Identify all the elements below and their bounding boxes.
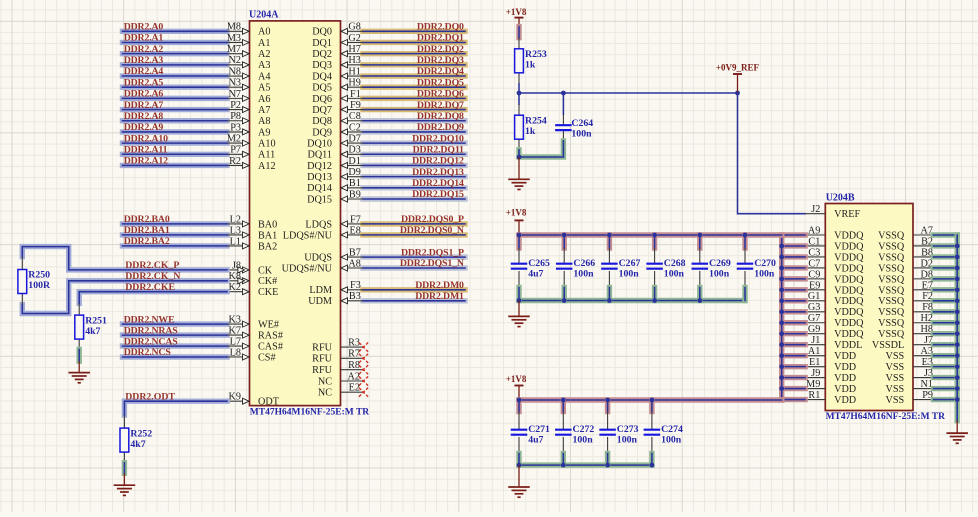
capacitor C267 [601, 248, 618, 288]
svg-text:100R: 100R [28, 280, 51, 291]
svg-text:G7: G7 [808, 313, 820, 324]
resistor R251 [75, 303, 84, 349]
svg-text:DDR2.CK_P: DDR2.CK_P [125, 260, 179, 271]
svg-text:DQ11: DQ11 [307, 150, 332, 161]
wire net DDR2.A8 (left) [123, 118, 228, 123]
junction node G9 [779, 331, 784, 336]
pin A8 (P8) of U204A [227, 111, 270, 127]
wire GND stub from pin A7 [933, 232, 957, 237]
svg-text:DDR2.A3: DDR2.A3 [124, 55, 164, 66]
svg-text:K2: K2 [229, 282, 241, 293]
svg-text:DDR2.A12: DDR2.A12 [124, 156, 168, 167]
pin BA1 (L3) of U204A [227, 225, 277, 241]
label R252 4k7 [130, 428, 152, 450]
wire +1V8 stub to C267 [607, 235, 612, 248]
svg-text:DDR2.DQ15: DDR2.DQ15 [412, 189, 464, 200]
pin CK (J8) of U204A [227, 260, 273, 276]
resistor R253 [515, 38, 524, 93]
svg-text:LDQS: LDQS [305, 219, 332, 230]
svg-text:DDR2.A11: DDR2.A11 [124, 144, 168, 155]
svg-text:VDDQ: VDDQ [834, 263, 864, 274]
svg-text:N3: N3 [229, 78, 241, 89]
svg-text:DDR2.DQ13: DDR2.DQ13 [412, 167, 464, 178]
wire net DDR2.DQ2 (right) [363, 51, 465, 56]
power port +1V8 (top) [506, 7, 527, 26]
pin DQ15 (B9) of U204A [307, 189, 363, 205]
net label DDR2.CK_N [125, 271, 180, 282]
junction node C265 bottom [517, 298, 522, 303]
pin A5 (N3) of U204A [227, 78, 270, 94]
svg-text:K3: K3 [229, 315, 241, 326]
wire net DDR2.DQ4 (right) [363, 73, 465, 78]
junction node G1 [779, 298, 784, 303]
svg-text:VSSQ: VSSQ [878, 307, 905, 318]
wire net DDR2.DQS1_N (right) [363, 265, 465, 270]
ground right of U204B [946, 421, 968, 444]
svg-text:J2: J2 [811, 204, 820, 215]
net label DDR2.BA0 [124, 214, 170, 225]
wire +1V8 stub to pin G9 [782, 331, 805, 336]
junction node G7 [779, 320, 784, 325]
svg-text:DQ14: DQ14 [307, 183, 332, 194]
wire +1V8 stub to C273 [605, 400, 610, 412]
wire +1V8 stub to pin R1 [782, 397, 805, 402]
svg-text:E1: E1 [809, 357, 820, 368]
net label DDR2.A10 [124, 133, 168, 144]
junction node C268 top [652, 233, 657, 238]
svg-text:DDR2.A4: DDR2.A4 [124, 66, 164, 77]
svg-text:CKE: CKE [258, 287, 278, 298]
wire net DDR2.A1 (left) [123, 40, 228, 45]
wire +1V8 stub to pin G7 [782, 320, 805, 325]
wire net DDR2.DQ15 (right) [363, 196, 465, 201]
svg-text:MT47H64M16NF-25E:M TR: MT47H64M16NF-25E:M TR [826, 412, 945, 422]
wire +0V9_REF to VREF pin [738, 93, 806, 214]
pin UDQS#/NU (A8) of U204A [282, 258, 363, 274]
svg-text:VSS: VSS [885, 384, 904, 395]
svg-text:1k: 1k [525, 126, 536, 137]
svg-text:DQ7: DQ7 [312, 105, 332, 116]
wire net DDR2.DQS1_P (right) [363, 254, 465, 259]
junction node C267 bottom [607, 298, 612, 303]
svg-text:VDDQ: VDDQ [834, 318, 864, 329]
svg-text:M9: M9 [806, 379, 820, 390]
ground under cap group 2 [508, 465, 530, 497]
svg-text:DQ4: DQ4 [312, 71, 332, 82]
svg-text:VDD: VDD [834, 395, 856, 406]
svg-text:A12: A12 [258, 161, 276, 172]
wire +1V8 stub to C268 [652, 235, 657, 248]
pin CAS# (L7) of U204A [227, 337, 283, 353]
junction node A9 rail tee [779, 233, 784, 238]
pin VDD (E1) of U204B [805, 357, 856, 373]
svg-text:DDR2.NWE: DDR2.NWE [124, 314, 175, 325]
wire +1V8 stub to pin C9 [782, 276, 805, 281]
svg-text:DQ6: DQ6 [312, 94, 332, 105]
svg-text:L1: L1 [230, 236, 241, 247]
pin DQ8 (C8) of U204A [312, 111, 363, 127]
pin VDDQ (G7) of U204B [805, 313, 864, 329]
wire GND stub from pin D8 [933, 276, 957, 281]
net label DDR2.DQ6 [417, 89, 464, 100]
svg-text:DQ2: DQ2 [312, 49, 332, 60]
svg-text:M2: M2 [227, 134, 241, 145]
junction node N1 [955, 386, 960, 391]
svg-text:J9: J9 [811, 368, 820, 379]
pin VDDQ (G9) of U204B [805, 324, 864, 340]
svg-text:G1: G1 [808, 291, 820, 302]
svg-text:H3: H3 [348, 55, 360, 66]
wire net DDR2.DQ6 (right) [363, 96, 465, 101]
pin LDM (F3) of U204A [309, 280, 363, 296]
wire GND stub from pin F8 [933, 309, 957, 314]
svg-text:R1: R1 [808, 390, 820, 401]
junction node E1 [779, 364, 784, 369]
wire net DDR2.DQ0 (right) [363, 29, 465, 34]
svg-text:K9: K9 [229, 392, 241, 403]
wire net DDR2.A4 (left) [123, 73, 228, 78]
pin A4 (N8) of U204A [227, 66, 270, 82]
wire GND stub from pin H2 [933, 320, 957, 325]
junction node C1 [779, 244, 784, 249]
wire net DDR2.A11 (left) [123, 152, 228, 157]
junction node C265 top [517, 233, 522, 238]
svg-text:VDD: VDD [834, 351, 856, 362]
svg-text:RFU: RFU [312, 343, 332, 354]
svg-text:WE#: WE# [258, 320, 279, 331]
svg-text:100n: 100n [664, 269, 685, 280]
svg-text:100n: 100n [573, 435, 594, 446]
svg-text:DDR2.DQ8: DDR2.DQ8 [417, 111, 464, 122]
wire net DDR2.DQ11 (right) [363, 152, 465, 157]
pin RFU (R7) of U204A with no-ERC cross [312, 349, 368, 365]
svg-text:DQ0: DQ0 [312, 27, 332, 38]
net label DDR2.A11 [124, 144, 168, 155]
pin NC (E2) of U204A with no-ERC cross [318, 383, 368, 399]
junction node E7 [955, 287, 960, 292]
capacitor C269 [692, 248, 709, 288]
svg-text:LDQS#/NU: LDQS#/NU [283, 230, 333, 241]
wire net DDR2.NCS (left) [123, 354, 228, 359]
wire C267 to GND rail [607, 288, 612, 301]
svg-text:DDR2.BA1: DDR2.BA1 [124, 225, 170, 236]
wire net DDR2.A5 (left) [123, 84, 228, 89]
wire net DDR2.DQS0_P (right) [363, 221, 465, 226]
svg-text:D3: D3 [348, 145, 360, 156]
wire R252 to ground [122, 463, 127, 474]
pin A9 (P3) of U204A [227, 122, 270, 138]
svg-text:DDR2.BA2: DDR2.BA2 [124, 236, 170, 247]
capacitor C266 [556, 248, 573, 288]
svg-text:DQ5: DQ5 [312, 83, 332, 94]
wire +1V8 rail (cap group 1) [519, 232, 782, 237]
net label DDR2.DQ0 [417, 22, 464, 33]
wire net DDR2.BA1 (left) [123, 232, 228, 237]
svg-text:N7: N7 [229, 89, 241, 100]
svg-text:DDR2.DQ2: DDR2.DQ2 [417, 44, 464, 55]
svg-text:100n: 100n [617, 435, 638, 446]
wire +1V8 stub to pin C7 [782, 265, 805, 270]
net label DDR2.CK_P [125, 260, 179, 271]
svg-text:N8: N8 [229, 66, 241, 77]
pin VDDQ (C3) of U204B [805, 247, 864, 263]
pin LDQS#/NU (E8) of U204A [283, 225, 363, 241]
svg-text:100n: 100n [573, 269, 594, 280]
svg-text:A2: A2 [258, 49, 270, 60]
svg-text:DDR2.A10: DDR2.A10 [124, 133, 168, 144]
svg-text:RAS#: RAS# [258, 331, 283, 342]
junction node C272 top [561, 398, 566, 403]
pin DQ10 (D7) of U204A [307, 134, 363, 150]
wire net DDR2.CK_N [22, 281, 227, 314]
net label DDR2.DQ15 [412, 189, 464, 200]
svg-text:VSS: VSS [885, 351, 904, 362]
pin DQ14 (B1) of U204A [307, 178, 363, 194]
svg-text:VSSQ: VSSQ [878, 230, 905, 241]
pin DQ6 (F1) of U204A [312, 89, 363, 105]
svg-text:VDDQ: VDDQ [834, 296, 864, 307]
junction node A1 [779, 353, 784, 358]
pin VSSQ (H2) of U204B [878, 313, 933, 329]
svg-text:G8: G8 [348, 22, 360, 33]
wire C271 to GND rail [516, 454, 521, 466]
wire +1V8 stub to C269 [697, 235, 702, 248]
label C267 100n [619, 258, 641, 280]
label R253 1k [525, 49, 547, 71]
junction node F2 [955, 298, 960, 303]
junction node C273 bottom [605, 463, 610, 468]
ground under R251 [68, 361, 90, 383]
wire C268 to GND rail [652, 288, 657, 301]
junction node C269 top [697, 233, 702, 238]
net label DDR2.BA1 [124, 225, 170, 236]
svg-text:P8: P8 [230, 111, 241, 122]
wire GND stub from pin J3 [933, 375, 957, 380]
svg-text:VSSQ: VSSQ [878, 329, 905, 340]
wire net DDR2.CK_P [22, 247, 227, 270]
net label DDR2.CKE [125, 282, 175, 293]
svg-text:NC: NC [318, 376, 332, 387]
svg-text:P2: P2 [230, 100, 241, 111]
net label DDR2.ODT [125, 391, 175, 402]
svg-text:4u7: 4u7 [528, 435, 543, 446]
junction node ground tap [517, 155, 522, 160]
net label DDR2.A1 [124, 33, 164, 44]
label C264 100n [571, 118, 593, 140]
pin BA2 (L1) of U204A [227, 236, 277, 252]
wire net DDR2.A9 (left) [123, 129, 228, 134]
svg-text:E2: E2 [349, 383, 360, 394]
svg-text:J1: J1 [811, 335, 820, 346]
net label DDR2.DM0 [415, 280, 464, 291]
junction node J9 [779, 375, 784, 380]
svg-text:R2: R2 [229, 156, 241, 167]
ground under R254 [508, 157, 530, 190]
svg-text:G3: G3 [808, 302, 820, 313]
wire R254/C264 to ground [519, 141, 563, 157]
net label DDR2.DQ10 [412, 133, 464, 144]
pin VSSQ (E7) of U204B [878, 280, 933, 296]
svg-text:VSSQ: VSSQ [878, 263, 905, 274]
pin DQ3 (H3) of U204A [312, 55, 363, 71]
svg-text:VDDQ: VDDQ [834, 230, 864, 241]
pin DQ5 (H9) of U204A [312, 78, 363, 94]
svg-text:B7: B7 [349, 248, 361, 259]
svg-text:C274: C274 [661, 424, 683, 435]
pin CK# (K8) of U204A [227, 271, 277, 287]
net label DDR2.NCS [124, 347, 172, 358]
junction node C268 bottom [652, 298, 657, 303]
pin VDDL (J1) of U204B [805, 335, 862, 351]
svg-text:C266: C266 [573, 258, 595, 269]
svg-text:DDR2.DM0: DDR2.DM0 [415, 280, 464, 291]
pin VDDQ (E9) of U204B [805, 280, 864, 296]
wire C266 to GND rail [562, 288, 567, 301]
wire net DDR2.NRAS (left) [123, 332, 228, 337]
svg-text:DDR2.DQ9: DDR2.DQ9 [417, 122, 464, 133]
wire +1V8 stub to pin C3 [782, 254, 805, 259]
svg-text:A9: A9 [808, 225, 820, 236]
wire net DDR2.DQ12 (right) [363, 163, 465, 168]
wire net DDR2.NWE (left) [123, 321, 228, 326]
wire net +0V9_REF horizontal [519, 92, 738, 94]
junction node D2 [955, 266, 960, 271]
pin DQ4 (H1) of U204A [312, 66, 363, 82]
svg-text:C272: C272 [573, 424, 595, 435]
pin A11 (P7) of U204A [227, 145, 275, 161]
wire +1V8 stub to pin E1 [782, 364, 805, 369]
pin DQ11 (D3) of U204A [307, 145, 363, 161]
svg-text:C269: C269 [709, 258, 731, 269]
svg-text:F7: F7 [350, 214, 361, 225]
svg-text:P7: P7 [230, 145, 241, 156]
svg-text:B9: B9 [349, 189, 361, 200]
junction node C271 top [517, 398, 522, 403]
junction node G3 [779, 309, 784, 314]
net label DDR2.DQ12 [412, 156, 464, 167]
svg-text:VREF: VREF [834, 209, 860, 220]
ground under R252 [114, 473, 135, 495]
wire +1V8 stub to C272 [561, 400, 566, 412]
junction node J7 [955, 342, 960, 347]
svg-text:DDR2.DM1: DDR2.DM1 [415, 291, 464, 302]
svg-text:DQ8: DQ8 [312, 116, 332, 127]
svg-text:A8: A8 [348, 258, 360, 269]
wire net ODT (left) [0, 0, 1, 1]
junction node H2 [955, 320, 960, 325]
label C269 100n [709, 258, 731, 280]
svg-text:N2: N2 [229, 55, 241, 66]
wire GND stub from pin A3 [933, 353, 957, 358]
svg-text:A3: A3 [258, 60, 270, 71]
pin DQ0 (G8) of U204A [312, 22, 363, 38]
net label DDR2.DQ14 [412, 178, 464, 189]
svg-text:C273: C273 [617, 424, 639, 435]
svg-text:A7: A7 [258, 105, 270, 116]
wire GND stub from pin P9 [933, 397, 957, 402]
pin WE# (K3) of U204A [227, 315, 279, 331]
svg-text:VDDQ: VDDQ [834, 252, 864, 263]
pin VDD (M9) of U204B [805, 379, 856, 395]
junction node R1 rail tee [779, 398, 784, 403]
wire net CKE (left) [0, 0, 1, 1]
svg-text:A8: A8 [258, 116, 270, 127]
wire net DDR2.A6 (left) [123, 96, 228, 101]
svg-text:DDR2.NRAS: DDR2.NRAS [124, 325, 179, 336]
wire net DDR2.ODT [124, 401, 227, 415]
svg-text:DDR2.A6: DDR2.A6 [124, 89, 164, 100]
svg-text:1k: 1k [525, 60, 536, 71]
net label DDR2.DQS0_P [401, 214, 464, 225]
svg-text:DDR2.NCAS: DDR2.NCAS [124, 336, 179, 347]
net label DDR2.A0 [124, 22, 164, 33]
pin A1 (M3) of U204A [227, 33, 271, 49]
svg-text:DQ9: DQ9 [312, 127, 332, 138]
junction node B2 [955, 244, 960, 249]
wire GND rail (cap group 1) [519, 298, 745, 303]
svg-text:H9: H9 [348, 78, 360, 89]
svg-text:VSS: VSS [885, 373, 904, 384]
net label DDR2.DQ1 [417, 33, 464, 44]
pin BA0 (L2) of U204A [227, 214, 277, 230]
junction node C269 bottom [697, 298, 702, 303]
part number MT47H64M16NF-25E:M TR (U204B) [826, 412, 945, 422]
junction node M9 [779, 386, 784, 391]
pin VSSQ (A7) of U204B [878, 225, 933, 241]
wire GND stub from pin D2 [933, 265, 957, 270]
resistor R250 [18, 257, 27, 305]
wire net DDR2.A0 (left) [123, 29, 228, 34]
wire GND stub from pin B2 [933, 243, 957, 248]
svg-text:C267: C267 [619, 258, 641, 269]
label R250 100R [28, 269, 51, 291]
svg-text:DDR2.A0: DDR2.A0 [124, 22, 164, 33]
pin ODT (K9) of U204A [227, 392, 280, 408]
wire net DDR2.A2 (left) [123, 51, 228, 56]
label C272 100n [573, 424, 595, 446]
svg-text:VDDQ: VDDQ [834, 241, 864, 252]
wire net DDR2.DQS0_N (right) [363, 232, 465, 237]
pin DQ12 (D1) of U204A [307, 156, 363, 172]
net label DDR2.A7 [124, 100, 164, 111]
svg-text:VSSQ: VSSQ [878, 274, 905, 285]
svg-text:VDD: VDD [834, 373, 856, 384]
net label DDR2.DQ5 [417, 77, 464, 88]
wire net DDR2.DQ14 (right) [363, 185, 465, 190]
junction node C9 [779, 276, 784, 281]
net label DDR2.A3 [124, 55, 164, 66]
capacitor C274 [644, 412, 661, 454]
net label DDR2.DQ11 [413, 144, 464, 155]
svg-text:100n: 100n [619, 269, 640, 280]
net label DDR2.DQ4 [417, 66, 464, 77]
svg-text:A9: A9 [258, 127, 270, 138]
svg-text:VSSQ: VSSQ [878, 252, 905, 263]
pin A6 (N7) of U204A [227, 89, 270, 105]
svg-text:VDDL: VDDL [834, 340, 862, 351]
svg-text:L2: L2 [230, 214, 241, 225]
wire net DDR2.A10 (left) [123, 140, 228, 145]
net label DDR2.DQ3 [417, 55, 464, 66]
pin DQ9 (C2) of U204A [312, 122, 363, 138]
net label DDR2.DQ7 [417, 100, 464, 111]
svg-text:DDR2.DQ3: DDR2.DQ3 [417, 55, 464, 66]
svg-text:A1: A1 [258, 38, 270, 49]
svg-text:A5: A5 [258, 83, 270, 94]
svg-text:D9: D9 [348, 167, 360, 178]
junction node C7 [779, 266, 784, 271]
svg-text:DDR2.DQ14: DDR2.DQ14 [412, 178, 464, 189]
